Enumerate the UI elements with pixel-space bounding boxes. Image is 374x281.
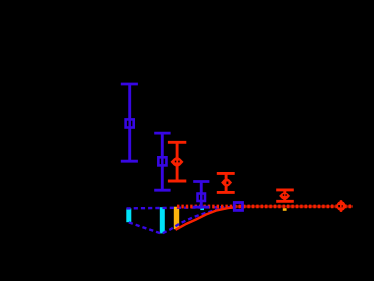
blue marker 2 center line [161,155,164,168]
red diamond marker 2 [221,178,232,187]
blue error bar 3 bottom cap [193,206,209,209]
red diamond marker 4 [336,201,347,212]
cyan band tick 3 [200,207,204,210]
red diamond 3 black dots [283,194,284,196]
cyan band bar 1 [126,208,131,222]
red error bar 3 bottom cap [276,200,294,203]
red error bar 2 top cap [217,172,235,175]
red diamond 2 black dot [226,182,228,185]
red diamond marker 3 [279,192,290,200]
red error bar 1 whisker [176,142,179,181]
red diamond 4 black slot [338,205,342,207]
blue square marker 2 [158,157,166,165]
red error bar 3 whisker [283,190,286,201]
red error bar 1 bottom cap [168,180,186,183]
red solid theory line [176,207,237,230]
blue error bar 2 bottom cap [154,189,170,192]
orange dot under diamond 3 [283,208,287,211]
blue error bar 1 top cap [121,83,138,86]
blue dashed band lower edge [129,207,233,233]
blue square marker 3 [198,194,206,202]
red error bar 4 whisker [340,200,342,212]
blue dashed band upper edge [127,207,234,208]
blue square marker 4 [234,203,242,211]
blue square marker 1 [126,119,134,127]
red diamond 1 black dots [175,161,177,163]
cyan band bar 2 [160,207,165,233]
blue error bar 1 whisker [128,84,131,161]
blue marker 1 center line [128,118,131,131]
blue error bar 1 bottom cap [121,160,138,163]
red error bar 2 whisker [225,173,228,192]
blue error bar 2 whisker [161,133,164,190]
red diamond marker 1 [171,157,184,168]
red error bar 3 top cap [276,188,294,191]
red error bar 2 bottom cap [217,191,235,194]
blue error bar 3 top cap [193,180,209,183]
red dotted line dark connector [236,205,353,208]
blue error bar 2 top cap [154,132,170,135]
red dotted theory line [177,205,353,209]
orange band bar [174,207,179,230]
red error bar 1 top cap [168,141,186,144]
blue marker 3 center line [200,192,203,204]
blue error bar 3 whisker [200,182,203,208]
red diamond 4 center dash [340,205,342,207]
